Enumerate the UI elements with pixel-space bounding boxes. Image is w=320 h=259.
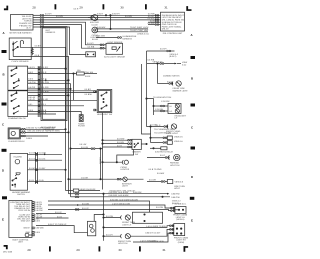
extra bottom row labels: [106, 215, 113, 237]
switch row5 wire to bus4: [28, 86, 72, 89]
svg-text:4 LH OF VIEW: 4 LH OF VIEW: [151, 240, 164, 243]
grid tick left 3: [2, 149, 7, 152]
svg-text:28: 28: [32, 5, 36, 9]
svg-text:(VIEW A-21): (VIEW A-21): [137, 32, 148, 35]
grid corner mark bottom-right: [184, 246, 189, 252]
svg-text:FLASHER RELAY: FLASHER RELAY: [9, 140, 26, 143]
wire clock row1 to bus: [31, 45, 65, 191]
ECU main box: [9, 200, 32, 237]
lighting switch box upper: [8, 66, 28, 90]
svg-text:0.85 L/G (VIEW 23 HARNESS B/: 0.85 L/G (VIEW 23 HARNESS B/W): [28, 130, 60, 133]
svg-text:0.5 R/B: 0.5 R/B: [117, 141, 124, 144]
svg-text:1.25 R/B: 1.25 R/B: [155, 108, 163, 111]
note text under right arrow: [172, 200, 182, 205]
tail light bulb 2: [103, 234, 132, 246]
dimmer feed wire2: [102, 141, 132, 145]
wire meter pin3 to DRL unit pin3: [33, 19, 161, 21]
svg-text:0.85 R/W: 0.85 R/W: [171, 192, 179, 195]
svg-text:0.5 L/W: 0.5 L/W: [79, 143, 86, 146]
svg-text:IGN B+: IGN B+: [23, 227, 30, 230]
lamp row bottom pair caption: [174, 185, 185, 190]
wire label row to box2 pin3: [133, 232, 174, 242]
hazard connector column: [35, 152, 37, 184]
svg-text:0.5 R: 0.5 R: [117, 144, 122, 147]
wire meter pin4 drop to joint connector: [33, 22, 99, 45]
arrow on switch row3: [45, 79, 47, 81]
wire meter pin2 to DRL unit pin2: [33, 17, 161, 19]
svg-text:VIEW A-8: VIEW A-8: [175, 180, 185, 183]
main horizontal wire lower B: [71, 194, 180, 199]
tail light bulb 1: [103, 215, 136, 227]
DRL pin5 stub wire: [148, 22, 161, 25]
svg-text:LO: LO: [170, 110, 173, 113]
switch row1 wire: [28, 66, 67, 69]
svg-text:SW: SW: [135, 153, 138, 156]
svg-text:HEAD 15A FUSE: HEAD 15A FUSE: [80, 188, 96, 191]
svg-text:(VIEW): (VIEW): [178, 241, 185, 244]
wire labels top run: [45, 8, 103, 18]
svg-text:0.5 B: 0.5 B: [35, 219, 40, 222]
svg-text:AUTO LIGHT SENSOR: AUTO LIGHT SENSOR: [104, 55, 125, 58]
svg-text:0.85 R/Y: 0.85 R/Y: [112, 13, 120, 16]
svg-text:0.5 B/Y: 0.5 B/Y: [39, 167, 46, 170]
wire bus4 to interior light row: [68, 177, 117, 180]
svg-text:LIGHT LH: LIGHT LH: [122, 224, 132, 227]
svg-text:0.5 R/B: 0.5 R/B: [88, 46, 95, 49]
svg-text:B: B: [2, 73, 4, 77]
noise condenser: [78, 115, 85, 128]
svg-text:0.5 L/G: 0.5 L/G: [55, 211, 62, 214]
fuse symbol bottom: [73, 188, 100, 192]
svg-text:D: D: [191, 175, 193, 179]
DRL pin connector pairs: [155, 15, 159, 26]
center feed vertical from headlight switch: [102, 113, 104, 190]
grid tick left 2: [2, 103, 7, 106]
DRL wire labels left of pins: [148, 13, 156, 21]
svg-text:CONNECTOR B-6: CONNECTOR B-6: [163, 74, 180, 77]
hazard row1 wire: [28, 152, 63, 156]
grid tick right 3: [191, 147, 196, 150]
light box 2 caption: [174, 236, 188, 244]
svg-text:(B-W 2): (B-W 2): [169, 55, 176, 58]
svg-text:LIGHT SENSOR: LIGHT SENSOR: [108, 41, 123, 44]
svg-text:HARNESS: HARNESS: [122, 37, 132, 40]
parking row comp 1: [150, 135, 184, 139]
short label rows right: [149, 168, 165, 175]
switch row6 wire pair a: [28, 88, 97, 91]
svg-text:0.5 B/Y: 0.5 B/Y: [35, 45, 42, 48]
flasher pin3 wire: [20, 135, 48, 140]
ECU row short labels: [35, 201, 44, 234]
grid tick right 2: [191, 104, 196, 107]
grid tick top 3: [145, 4, 147, 9]
svg-text:1.25 R/W: 1.25 R/W: [161, 100, 169, 103]
hazard row3 wire: [28, 167, 67, 170]
wire meter pin6 drop to joint connector: [33, 27, 86, 55]
wire to headlight feed: [146, 96, 172, 115]
grid tick top 2: [103, 4, 105, 9]
joint connector box: [86, 42, 96, 57]
svg-text:GND OUT: GND OUT: [21, 219, 31, 222]
wire branch B to right labels: [96, 26, 149, 29]
svg-text:0.5 B: 0.5 B: [28, 109, 33, 112]
switch row9 wire: [28, 103, 84, 106]
svg-text:0.85 G/B TO TURN SIGNAL SW: 0.85 G/B TO TURN SIGNAL SW: [26, 127, 55, 130]
svg-text:FILTER: FILTER: [78, 125, 85, 128]
svg-text:LIGHT RH: LIGHT RH: [170, 164, 180, 167]
svg-text:0.5 G/B: 0.5 G/B: [29, 152, 36, 155]
switch row6 wire pair b: [28, 90, 97, 96]
svg-text:0.5 R/Y: 0.5 R/Y: [87, 42, 94, 45]
hazard switch caption: [12, 191, 31, 196]
svg-text:DRL B+: DRL B+: [162, 28, 170, 31]
svg-text:0.85 B/W: 0.85 B/W: [97, 26, 105, 29]
svg-text:TO A/T SHIFT LOCK: TO A/T SHIFT LOCK: [130, 26, 149, 29]
svg-text:ILLUM: ILLUM: [92, 38, 98, 41]
svg-text:0.5 B/W: 0.5 B/W: [157, 172, 164, 175]
grid tick top 1: [55, 4, 57, 9]
svg-text:0.5 G/R: 0.5 G/R: [28, 86, 35, 89]
grid tick bottom 3: [139, 246, 141, 251]
ECU pin boxes: [32, 202, 34, 236]
svg-text:0.5 L/W: 0.5 L/W: [81, 146, 88, 149]
hazard row2 wire: [28, 158, 63, 161]
meter pin connectors row: [40, 15, 44, 28]
switch row2 wire to fuse: [28, 71, 77, 74]
svg-text:0.5 G: 0.5 G: [160, 154, 165, 157]
wire clock row2 to bus: [31, 54, 68, 194]
grid tick bottom 1: [49, 246, 51, 251]
headlight LO bulb: [154, 108, 187, 120]
light box 2 right: [172, 224, 185, 236]
wire branch to dimmer feed: [70, 143, 103, 149]
wire dimmer to cigarette lighter row: [117, 150, 134, 163]
switch row11 wire: [28, 111, 56, 114]
flasher pin2 wire: [20, 130, 69, 134]
svg-text:0.85 W/B: 0.85 W/B: [35, 227, 44, 230]
svg-text:LIGHT RH: LIGHT RH: [118, 242, 128, 245]
svg-text:0.85 R/W 1-4-5-6 B/W: 0.85 R/W 1-4-5-6 B/W: [109, 191, 129, 194]
svg-text:ALT L: ALT L: [26, 27, 32, 30]
svg-text:0.5 R/B: 0.5 R/B: [56, 15, 63, 18]
light sensor box: [106, 41, 123, 55]
small relay comp right: [150, 147, 174, 154]
grid corner mark bottom-left: [4, 245, 8, 249]
svg-text:HARNESS: HARNESS: [46, 31, 56, 34]
grid corner mark top-left: [4, 6, 8, 11]
svg-text:UNIT: UNIT: [18, 241, 23, 244]
svg-text:0.5 G/R: 0.5 G/R: [42, 86, 49, 89]
flasher pin1 wire: [20, 127, 66, 131]
wire right R2 merged: [147, 58, 187, 66]
svg-text:0.5 G/R: 0.5 G/R: [148, 22, 155, 25]
headlight box: [168, 104, 181, 114]
right rows lower: parking rows: [147, 126, 171, 143]
svg-text:28: 28: [27, 248, 31, 252]
side marker vertical feed: [157, 63, 158, 84]
svg-text:0.5 R: 0.5 R: [28, 71, 33, 74]
svg-text:SWITCH: SWITCH: [17, 193, 25, 196]
svg-text:0.5 R/Y: 0.5 R/Y: [45, 13, 52, 16]
svg-text:31: 31: [162, 248, 166, 252]
hazard row5 wire: [28, 179, 63, 182]
vertical wire with rotated label: [99, 148, 102, 179]
svg-text:30: 30: [118, 248, 122, 252]
svg-text:0.5 B: 0.5 B: [42, 111, 47, 114]
svg-text:0.5 L/R: 0.5 L/R: [28, 98, 35, 101]
svg-text:0.85 R/W: 0.85 R/W: [133, 191, 141, 194]
switch row3 wire: [28, 78, 70, 81]
svg-text:0.5 B/W: 0.5 B/W: [42, 90, 49, 93]
extra wire labels near junction: [112, 13, 132, 18]
svg-text:0.5 R/Y: 0.5 R/Y: [160, 48, 167, 51]
wire bulb2 to light box2 pin2: [130, 229, 173, 237]
svg-text:0.85 G/W 1-4-5-6 B/W: 0.85 G/W 1-4-5-6 B/W: [109, 194, 129, 197]
hazard switch box: [10, 153, 27, 190]
svg-text:0.5 R: 0.5 R: [42, 71, 47, 74]
svg-text:0.5 B: 0.5 B: [39, 179, 44, 182]
resistor on clock output: [31, 47, 33, 55]
wire ECU long row3 to light box pin2: [48, 207, 175, 212]
right vertical feed 1: [146, 51, 148, 127]
svg-text:0.5 G/W: 0.5 G/W: [35, 209, 42, 212]
svg-text:DRL CONTROL UNIT: DRL CONTROL UNIT: [163, 32, 183, 35]
svg-text:0.5 L/G: 0.5 L/G: [82, 207, 89, 210]
svg-text:DRL-1038: DRL-1038: [3, 251, 13, 254]
turn signal flasher box: [8, 128, 20, 139]
svg-text:TO ATC CONT UNIT: TO ATC CONT UNIT: [130, 29, 149, 32]
dimmer switch caption: [132, 151, 141, 156]
svg-text:E: E: [191, 218, 193, 222]
interior light connector: [117, 178, 121, 180]
svg-text:0.5 B/W: 0.5 B/W: [85, 93, 92, 96]
wire ECU long row2 to light box pin1: [48, 202, 187, 209]
svg-text:0.5 G/B: 0.5 G/B: [39, 152, 46, 155]
svg-text:0.5 G/B: 0.5 G/B: [82, 202, 89, 205]
svg-text:0.5 G/W: 0.5 G/W: [28, 81, 35, 84]
lamp row bottom pair a: [147, 179, 184, 184]
svg-text:0.5 L/W: 0.5 L/W: [99, 157, 102, 164]
svg-text:29: 29: [79, 5, 83, 9]
combination meter box: [11, 15, 34, 31]
wire branch D with connector: [96, 35, 137, 41]
wire to light box2 pin1: [103, 225, 174, 228]
wire right R1 with connector: [147, 48, 179, 58]
front turn light: [147, 123, 182, 135]
svg-text:0.5 G: 0.5 G: [156, 124, 161, 127]
cigarette lighter row wire: [102, 162, 123, 163]
dimmer passing switch box: [132, 139, 141, 149]
wire ECU short row4: [36, 211, 66, 214]
light sensor feed wire 2: [99, 47, 106, 49]
svg-text:CLOCK SPEAKER: CLOCK SPEAKER: [12, 60, 29, 63]
svg-text:(VIEW A): (VIEW A): [176, 218, 185, 221]
svg-text:0.85 G/Y 0.5 G/Y: 0.85 G/Y 0.5 G/Y: [145, 232, 161, 235]
switch row10 wire to noise condenser: [28, 109, 82, 115]
svg-text:METER SUB HARNESS: METER SUB HARNESS: [10, 32, 33, 35]
svg-text:0.5 R/G: 0.5 R/G: [148, 17, 155, 20]
svg-text:LIGHT: LIGHT: [174, 187, 181, 190]
headlight HI bulb: [153, 100, 180, 108]
svg-text:0.5 R/B: 0.5 R/B: [125, 15, 132, 18]
svg-text:HEADLIGHT SW: HEADLIGHT SW: [97, 113, 112, 116]
parking row comp 2: [151, 140, 184, 144]
switch row7 wire to bus5: [28, 95, 70, 99]
wire meter pin5 drop to joint connector: [33, 25, 99, 49]
headlight switch box: [94, 90, 112, 113]
grid tick right 1: [191, 56, 196, 59]
svg-text:0.5 G: 0.5 G: [42, 78, 47, 81]
light box 1 right: [173, 207, 186, 214]
svg-text:0.5 B/Y: 0.5 B/Y: [85, 88, 92, 91]
svg-text:0.85 B: 0.85 B: [26, 137, 32, 140]
svg-text:1-4-5-6 WIRE TO B/W: 1-4-5-6 WIRE TO B/W: [146, 225, 166, 228]
dimmer feed wire3: [103, 144, 133, 148]
dimmer feed wire1: [102, 138, 132, 142]
svg-text:B: B: [191, 77, 193, 81]
svg-text:TO HEADLIGHT RH: TO HEADLIGHT RH: [153, 96, 172, 99]
cigarette lighter symbol: [121, 160, 130, 171]
fuse symbol on row2: [73, 69, 97, 100]
svg-text:0.5 B: 0.5 B: [35, 54, 40, 57]
switch row8 wire: [28, 98, 97, 101]
grid tick left 1: [2, 50, 7, 53]
wire ECU row6 to flasher unit: [36, 223, 88, 233]
wire meter pin1 to DRL unit pin1: [33, 14, 161, 16]
svg-text:MARKER LIGHT: MARKER LIGHT: [173, 89, 189, 92]
grid tick right 4: [190, 197, 195, 200]
wire ECU short row5: [36, 215, 69, 218]
svg-text:29: 29: [76, 248, 80, 252]
svg-text:VIEW A-5: VIEW A-5: [174, 135, 184, 138]
svg-text:0.5 L/G: 0.5 L/G: [39, 158, 46, 161]
front side marker light: [158, 81, 189, 93]
svg-text:0.85 R: 0.85 R: [97, 13, 103, 16]
wire branch C to right labels: [96, 29, 149, 35]
svg-text:0.85 G/W: 0.85 G/W: [171, 196, 180, 199]
svg-text:0.5 R: 0.5 R: [74, 8, 79, 11]
svg-text:0.5 L/G: 0.5 L/G: [29, 158, 36, 161]
cigar lighter symbol: [90, 27, 99, 41]
DRL control unit box: [161, 12, 185, 31]
svg-text:0.5 R/Y: 0.5 R/Y: [28, 66, 35, 69]
instrument harness box: [41, 27, 67, 121]
svg-text:FUSE: FUSE: [85, 75, 91, 78]
svg-text:STOP SIG IN: STOP SIG IN: [18, 209, 30, 212]
grid tick left 4: [2, 196, 7, 199]
switch connector column verticals: [38, 66, 40, 117]
svg-text:ILLUM: ILLUM: [92, 23, 98, 26]
svg-text:0.5 B: 0.5 B: [35, 231, 40, 234]
vertical feed for tail lights: [103, 193, 104, 241]
svg-text:0.5 G/R: 0.5 G/R: [149, 179, 156, 182]
clearance feed labels: [154, 124, 174, 131]
ECU caption: [13, 238, 30, 243]
svg-text:0.5 R/W: 0.5 R/W: [117, 138, 124, 141]
grid corner mark top-right: [186, 6, 191, 11]
svg-text:0.5 G/Y: 0.5 G/Y: [106, 234, 113, 237]
svg-text:0.5 G/W: 0.5 G/W: [42, 81, 49, 84]
node on wire1 vertical tie: [110, 15, 111, 29]
lighting switch box lower: [8, 91, 28, 117]
svg-text:30: 30: [120, 5, 124, 9]
svg-text:0.5 R/Y: 0.5 R/Y: [42, 66, 49, 69]
svg-text:0.5 G: 0.5 G: [28, 78, 33, 81]
svg-text:TAIL 10A: TAIL 10A: [85, 71, 94, 74]
svg-text:0.5 G/B 0.5 L: 0.5 G/B 0.5 L: [175, 203, 188, 206]
interior light bulb: [121, 177, 143, 188]
svg-text:1-4-5-6 G/B 0.5 G/B: 1-4-5-6 G/B 0.5 G/B: [112, 202, 130, 205]
svg-text:TO CLEARANCE RH: TO CLEARANCE RH: [154, 128, 174, 131]
svg-text:0.5 G/B: 0.5 G/B: [106, 215, 113, 218]
svg-text:HAZARD: HAZARD: [14, 156, 23, 159]
svg-text:LIGHT: LIGHT: [122, 185, 129, 188]
svg-text:0.5 B: 0.5 B: [29, 179, 34, 182]
svg-text:0.5 G/B: 0.5 G/B: [156, 206, 163, 209]
light sensor feed wire 1: [99, 44, 106, 46]
light box 1 caption: [173, 214, 187, 221]
svg-text:TO LIGHTING SW: TO LIGHTING SW: [154, 132, 171, 135]
svg-text:0.5 B TO GND: 0.5 B TO GND: [149, 168, 162, 171]
svg-text:0.5 B/Y: 0.5 B/Y: [29, 167, 36, 170]
svg-text:0.5 L/R: 0.5 L/R: [42, 98, 49, 101]
svg-text:E: E: [2, 218, 4, 222]
bus1 bend to fuse row: [66, 190, 74, 192]
dimmer output wire: [141, 143, 147, 144]
wire ECU long row1: [48, 198, 150, 212]
license light bulb: [147, 154, 180, 167]
ashtray illumination bulb: [88, 15, 100, 27]
switch row4 wire to bus3: [28, 81, 71, 197]
main horizontal wire lower A: [69, 191, 180, 195]
svg-text:0.5 G/R: 0.5 G/R: [81, 177, 88, 180]
svg-text:0.5 B: 0.5 B: [57, 215, 62, 218]
svg-text:VIEW A-6: VIEW A-6: [174, 140, 184, 143]
grid tick bottom 2: [99, 246, 101, 251]
center junction box: [133, 212, 163, 223]
svg-text:COMBINATION SW: COMBINATION SW: [8, 117, 26, 120]
instrument harness caption: [41, 126, 56, 131]
flasher unit box bottom: [88, 214, 105, 236]
long vertical wire right of center: [142, 64, 148, 134]
svg-text:0.85 RW TO RELAY: 0.85 RW TO RELAY: [155, 151, 174, 154]
svg-text:0.5 G: 0.5 G: [167, 81, 172, 84]
svg-text:31: 31: [164, 5, 168, 9]
clock speaker box: [9, 38, 31, 60]
svg-text:LIGHTER: LIGHTER: [121, 168, 130, 171]
svg-text:0.85 G/B 1-4-5-6 B/W 0.85 G/B: 0.85 G/B 1-4-5-6 B/W 0.85 G/B: [110, 198, 138, 201]
svg-text:D: D: [2, 169, 4, 173]
DRL pin4 stub wire: [148, 20, 161, 23]
svg-text:0.85 G TO TURN LP: 0.85 G TO TURN LP: [48, 223, 67, 226]
